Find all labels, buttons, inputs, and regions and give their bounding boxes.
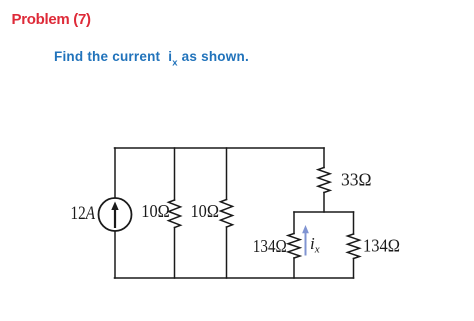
wire: sub-right vertical top bbox=[353, 212, 355, 234]
wire: branch 33ohm bottom bbox=[323, 193, 325, 213]
instruction text bbox=[54, 49, 249, 69]
ix current arrow (blue) bbox=[302, 225, 309, 256]
wire: sub-left vertical bottom bbox=[293, 258, 295, 278]
wire: left vertical above current source bbox=[114, 148, 116, 198]
resistor R3 33ohm body bbox=[318, 168, 330, 193]
wire: sub-left vertical top bbox=[293, 212, 295, 234]
svg-text:33Ω: 33Ω bbox=[341, 170, 372, 190]
resistor R4 134ohm left body bbox=[288, 234, 300, 259]
svg-text:10Ω: 10Ω bbox=[141, 201, 170, 221]
wire: top horizontal bbox=[115, 147, 325, 149]
current source I1 circle bbox=[99, 198, 132, 231]
resistor R1 10ohm body bbox=[169, 200, 181, 228]
wire: sub-circuit top horizontal bbox=[294, 211, 354, 213]
svg-text:ix: ix bbox=[310, 234, 320, 255]
svg-text:12A: 12A bbox=[71, 204, 96, 224]
wire: left vertical below current source bbox=[114, 231, 116, 278]
resistor R5 134ohm right body bbox=[348, 234, 360, 259]
wire: branch R1 bottom bbox=[174, 228, 176, 279]
title: Problem (7) bbox=[12, 11, 91, 28]
resistor R2 10ohm body bbox=[221, 200, 233, 228]
svg-text:134Ω: 134Ω bbox=[253, 236, 287, 256]
current source I1 arrow bbox=[111, 202, 118, 229]
wire: bottom horizontal bbox=[115, 277, 354, 279]
wire: sub-right vertical bottom bbox=[353, 259, 355, 279]
svg-text:134Ω: 134Ω bbox=[363, 236, 400, 256]
wire: branch R1 top bbox=[174, 148, 176, 200]
wire: branch R2 bottom bbox=[226, 227, 228, 278]
svg-text:10Ω: 10Ω bbox=[191, 201, 220, 221]
wire: branch R2 top bbox=[226, 148, 228, 200]
wire: branch 33ohm top bbox=[323, 148, 325, 168]
